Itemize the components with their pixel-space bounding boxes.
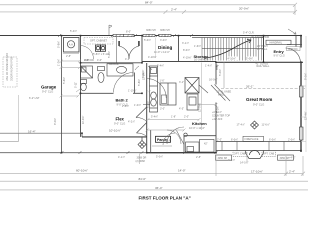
svg-text:1'-8": 1'-8" [171, 116, 176, 119]
svg-text:5'-8⅝": 5'-8⅝" [138, 79, 141, 86]
opt case dashed left [233, 151, 247, 157]
svg-text:5'-4" CLR.: 5'-4" CLR. [243, 32, 255, 35]
fireplace label box [243, 136, 264, 141]
entry door tag 3068 DC [287, 47, 301, 51]
svg-text:11'-0" x 12'-0": 11'-0" x 12'-0" [154, 50, 170, 54]
garage right wall [61, 36, 63, 153]
opt cabinet dashed [84, 38, 113, 45]
leader arrow top right wall [288, 29, 296, 34]
svg-text:OPT. CAB: OPT. CAB [263, 153, 275, 156]
wall bath/flex y93 [80, 92, 114, 94]
stair well step in top wall [192, 37, 263, 39]
svg-text:5'-0⅜": 5'-0⅜" [246, 58, 253, 61]
wall laundry/bath y62 [80, 62, 143, 64]
svg-text:5'-4⅝": 5'-4⅝" [151, 116, 158, 119]
kitchen island [160, 83, 176, 105]
vanity [107, 64, 133, 76]
svg-text:1'-4⅞": 1'-4⅞" [205, 65, 212, 68]
svg-text:2'-1": 2'-1" [166, 139, 171, 142]
kitchen dim line mid [146, 129, 186, 132]
svg-text:HANDRAIL: HANDRAIL [270, 42, 283, 45]
svg-text:1'-6": 1'-6" [160, 80, 165, 83]
corridor dim line 2 [60, 89, 81, 98]
bath east wall [134, 73, 136, 94]
mud counter [200, 140, 215, 153]
svg-text:4'-2⅞": 4'-2⅞" [228, 159, 235, 162]
svg-text:Garage: Garage [41, 85, 57, 90]
svg-text:36'-4": 36'-4" [155, 186, 163, 190]
bath door arc [114, 73, 134, 93]
bottom dim line 2 [0, 180, 308, 182]
svg-text:USE OF PREMIUM GAR: USE OF PREMIUM GAR [6, 53, 9, 81]
toilet bath2 [81, 80, 87, 91]
svg-text:5'-0⅝": 5'-0⅝" [219, 69, 222, 76]
pedestal sink [98, 67, 105, 83]
stairs up arrow [206, 40, 251, 59]
stairs treads [202, 38, 261, 61]
svg-text:3'-1": 3'-1" [179, 81, 184, 84]
svg-text:4'-1": 4'-1" [125, 58, 130, 61]
svg-text:26'-1": 26'-1" [246, 85, 254, 89]
svg-text:4'-10⅝": 4'-10⅝" [183, 57, 192, 60]
svg-text:1'-6⅝": 1'-6⅝" [194, 45, 201, 48]
garage front wall [0, 132, 82, 134]
svg-text:3'-0": 3'-0" [160, 108, 165, 111]
svg-text:5'-11": 5'-11" [75, 82, 78, 88]
svg-text:3050 SH: 3050 SH [218, 157, 228, 160]
water heater circle [67, 41, 74, 48]
pantry shelf [152, 145, 172, 147]
top wall ticks [58, 34, 193, 37]
svg-text:4'-10⅝": 4'-10⅝" [148, 56, 157, 59]
svg-text:5'-8⅝": 5'-8⅝" [108, 51, 111, 58]
svg-text:4'-2⅞": 4'-2⅞" [128, 121, 135, 124]
svg-text:2'-8⅝": 2'-8⅝" [122, 105, 129, 108]
svg-text:9'-0⅝": 9'-0⅝" [54, 118, 57, 125]
pantry door arc [163, 133, 175, 145]
svg-text:9'-0" CLG: 9'-0" CLG [42, 90, 53, 94]
hall closet double doors [118, 41, 139, 59]
svg-text:Great Room: Great Room [246, 97, 272, 102]
svg-text:OPT. CAB: OPT. CAB [234, 153, 246, 156]
stairs landing line [202, 47, 264, 49]
flex south wall [82, 136, 147, 138]
svg-text:2'-1": 2'-1" [146, 91, 151, 94]
knee wall line [221, 88, 305, 90]
svg-text:5'-0⅝": 5'-0⅝" [156, 156, 163, 159]
svg-text:4'-3": 4'-3" [179, 108, 184, 111]
dims over stair base [227, 57, 257, 61]
cased opening marks hall [135, 66, 152, 70]
laundry closet divider wall [116, 36, 118, 63]
note box garage [3, 57, 17, 87]
svg-text:12'-4⅝": 12'-4⅝" [305, 111, 308, 120]
great room bottom window wall [216, 142, 301, 151]
great room left wall [215, 62, 217, 85]
smoke detector diamond [138, 137, 146, 149]
svg-text:5'-8⅝" x 5'-11": 5'-8⅝" x 5'-11" [93, 53, 109, 56]
svg-text:2'-4": 2'-4" [171, 7, 177, 11]
svg-text:PL WALL: PL WALL [257, 48, 268, 51]
svg-text:2'-0": 2'-0" [184, 116, 189, 119]
kitchen dim vertical [201, 63, 203, 131]
bottom dim line 3 [0, 189, 308, 191]
svg-text:10'-10⅞": 10'-10⅞" [109, 129, 121, 133]
opt case dashed right [262, 151, 276, 157]
svg-text:Bath 2: Bath 2 [116, 98, 129, 103]
svg-text:84'-0": 84'-0" [139, 177, 147, 181]
svg-text:FIRST FLOOR PLAN "A": FIRST FLOOR PLAN "A" [139, 195, 191, 200]
garage left dim line [18, 95, 20, 133]
wall under stairs right [216, 61, 303, 63]
mech closet dim lines [60, 54, 81, 63]
svg-text:2'-8": 2'-8" [66, 55, 71, 58]
kitchen door arc [147, 79, 167, 99]
svg-text:6'-2" LNT: 6'-2" LNT [29, 97, 40, 100]
bottom wall ticks [61, 151, 218, 154]
svg-text:9'-0" CLG: 9'-0" CLG [274, 54, 285, 58]
mud wall [184, 135, 216, 137]
svg-text:9'-0⅝": 9'-0⅝" [305, 73, 308, 80]
svg-text:3'-0⅝": 3'-0⅝" [160, 39, 167, 42]
window tag box left [216, 155, 232, 160]
bottom dim line 1 [0, 152, 305, 176]
svg-text:84'-0": 84'-0" [145, 0, 153, 4]
svg-text:20'-0⅝": 20'-0⅝" [239, 7, 249, 11]
svg-text:DOOR IN OPEN POS: DOOR IN OPEN POS [11, 56, 14, 81]
ceiling fan symbol [251, 121, 259, 129]
svg-text:2'-4": 2'-4" [289, 170, 295, 174]
kitchen dim lines [147, 103, 218, 121]
dining/storage wall [178, 36, 180, 62]
svg-text:GB RAIL: GB RAIL [109, 63, 119, 66]
mud door arc [167, 127, 184, 144]
svg-text:3050 SH: 3050 SH [160, 29, 170, 32]
washer dryer [96, 45, 106, 51]
right wall windows [299, 86, 303, 97]
dining windows top [143, 34, 171, 37]
svg-text:4'-0": 4'-0" [97, 59, 102, 62]
svg-text:Flex: Flex [116, 117, 125, 122]
svg-text:17'-10⅝": 17'-10⅝" [251, 170, 263, 174]
svg-text:60'-10⅝": 60'-10⅝" [76, 169, 88, 173]
shower [81, 66, 93, 78]
svg-text:3050 SH: 3050 SH [280, 157, 290, 160]
svg-text:3'-1⅞": 3'-1⅞" [182, 42, 189, 45]
corridor dim line 1 [60, 66, 82, 69]
window tag box right [278, 155, 294, 160]
svg-text:9'-0" CLG: 9'-0" CLG [114, 122, 125, 126]
dimension line top 2 [0, 5, 297, 15]
svg-text:A.H.: A.H. [69, 43, 74, 46]
kitchen west wall [146, 63, 148, 153]
dimension line top 1 [0, 3, 297, 7]
svg-text:8'-0": 8'-0" [126, 31, 131, 34]
svg-text:16'-4": 16'-4" [28, 129, 36, 133]
svg-text:FIREPLACE: FIREPLACE [245, 138, 259, 141]
kitchen corner diagonal [199, 85, 230, 102]
range [187, 94, 198, 110]
garage front notch [0, 133, 19, 141]
right wall dim stubs [301, 86, 306, 142]
svg-text:Entry: Entry [274, 49, 285, 54]
svg-text:14'-0": 14'-0" [178, 169, 186, 173]
svg-text:2'-0⅝": 2'-0⅝" [288, 139, 295, 142]
top wall [0, 35, 302, 37]
mud symbol circle [184, 133, 187, 136]
svg-text:17'-4⅞": 17'-4⅞" [237, 123, 246, 126]
svg-text:3050 SH: 3050 SH [146, 29, 156, 32]
svg-text:42": 42" [204, 143, 208, 146]
kitchen counter left [150, 66, 158, 112]
svg-text:10'-0" x 12'-0": 10'-0" x 12'-0" [189, 126, 205, 130]
svg-text:6'-0⅝": 6'-0⅝" [269, 139, 276, 142]
svg-text:4'-10⅝": 4'-10⅝" [228, 58, 237, 61]
svg-text:+42" AFF: +42" AFF [212, 118, 223, 121]
svg-text:9'-0" CLG: 9'-0" CLG [253, 103, 264, 107]
fireplace bump [246, 151, 264, 159]
svg-text:2'-8": 2'-8" [84, 59, 89, 62]
svg-text:1'-2⅝": 1'-2⅝" [58, 59, 61, 66]
entry door arc [286, 48, 301, 63]
svg-text:6'-0⅝": 6'-0⅝" [231, 139, 238, 142]
dining dim line vertical [155, 38, 157, 59]
svg-text:1'-10⅝": 1'-10⅝" [128, 90, 137, 93]
right wall [300, 36, 302, 48]
svg-text:2'-8": 2'-8" [196, 156, 201, 159]
svg-text:11'-6⅞": 11'-6⅞" [262, 123, 270, 126]
entry closet [266, 40, 291, 44]
svg-text:5'-4⅝": 5'-4⅝" [157, 65, 164, 68]
svg-text:8'-0⅝": 8'-0⅝" [183, 49, 190, 52]
svg-text:5'-8⅝": 5'-8⅝" [63, 77, 66, 84]
mud bench [186, 142, 200, 152]
flex entry doors [136, 105, 150, 137]
keynote symbol top wall [109, 25, 112, 35]
svg-text:Dining: Dining [158, 45, 172, 50]
entry wall vertical [295, 36, 297, 48]
svg-text:5'-8⅝": 5'-8⅝" [58, 41, 61, 48]
svg-text:RAIL WALL: RAIL WALL [257, 65, 270, 68]
wall under stairs left [142, 61, 216, 63]
room label Pantry [156, 136, 171, 142]
tick symbol below stairs [216, 65, 219, 71]
svg-text:+4'-2": +4'-2" [289, 157, 296, 160]
svg-text:OPT. CABINET: OPT. CABINET [90, 39, 108, 42]
interior wall x80 [80, 36, 82, 137]
svg-text:(2) 3068: (2) 3068 [136, 160, 146, 163]
stairs right wall [263, 36, 265, 63]
svg-text:2'-0": 2'-0" [217, 139, 222, 142]
svg-text:16'-0⅝": 16'-0⅝" [209, 78, 218, 81]
water heater closet [64, 38, 80, 53]
bottom wall main [0, 152, 147, 154]
svg-text:5'-0⅝": 5'-0⅝" [144, 39, 151, 42]
svg-text:5'-4⅝": 5'-4⅝" [70, 30, 77, 33]
right dim line [305, 36, 307, 152]
window ticks [222, 142, 284, 151]
svg-text:1'-0⅝": 1'-0⅝" [134, 104, 141, 107]
svg-text:3'-11⅝": 3'-11⅝" [142, 70, 145, 78]
laundry door arc [80, 46, 94, 60]
svg-text:Kitchen: Kitchen [192, 121, 207, 126]
fridge [185, 78, 199, 94]
dining left wall [141, 36, 143, 64]
svg-text:4'-1⅞": 4'-1⅞" [118, 156, 125, 159]
svg-text:11'-0⅝": 11'-0⅝" [82, 116, 85, 124]
window hall top wall [113, 34, 134, 37]
